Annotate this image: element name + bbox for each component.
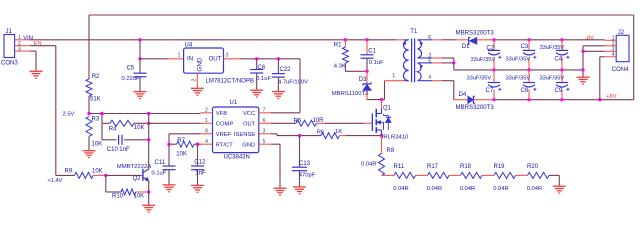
svg-text:7: 7	[263, 108, 266, 114]
svg-text:D3: D3	[359, 77, 367, 83]
svg-text:R4: R4	[109, 126, 117, 132]
svg-text:4: 4	[205, 139, 208, 145]
svg-text:VCC: VCC	[243, 111, 255, 117]
svg-text:C8: C8	[521, 88, 529, 94]
svg-text:10K: 10K	[134, 125, 145, 131]
svg-text:C11: C11	[155, 160, 166, 166]
svg-text:0.04R: 0.04R	[460, 186, 475, 192]
svg-text:MBRS3200T3: MBRS3200T3	[456, 29, 495, 36]
svg-text:R20: R20	[527, 164, 539, 170]
svg-text:1nF: 1nF	[119, 147, 130, 153]
svg-text:VIN: VIN	[23, 35, 33, 41]
svg-text:C7: C7	[486, 88, 494, 94]
svg-text:R18: R18	[460, 164, 472, 170]
svg-text:MBRS3200T3: MBRS3200T3	[456, 104, 495, 111]
svg-text:Q2: Q2	[133, 176, 142, 182]
svg-text:2: 2	[191, 79, 197, 82]
svg-text:5: 5	[263, 139, 266, 145]
svg-text:MBRS1100T3: MBRS1100T3	[332, 91, 369, 97]
svg-text:R8: R8	[387, 148, 395, 154]
svg-text:3: 3	[263, 129, 266, 135]
svg-text:4: 4	[612, 52, 615, 58]
svg-text:C10: C10	[107, 147, 119, 153]
svg-text:IN: IN	[187, 56, 193, 63]
svg-text:GND: GND	[197, 57, 204, 71]
svg-text:4: 4	[428, 74, 431, 80]
svg-text:C22: C22	[280, 67, 292, 73]
svg-text:D1: D1	[462, 44, 470, 50]
svg-text:0.1uF: 0.1uF	[369, 60, 384, 66]
svg-text:R19: R19	[494, 164, 506, 170]
svg-text:51K: 51K	[90, 96, 101, 102]
svg-text:0.1uF: 0.1uF	[256, 76, 271, 82]
svg-text:CON4: CON4	[612, 67, 629, 73]
svg-text:6: 6	[263, 118, 266, 124]
svg-text:LM7812CT/NOPB: LM7812CT/NOPB	[206, 79, 254, 85]
svg-text:CON3: CON3	[1, 61, 18, 67]
svg-text:470pF: 470pF	[299, 173, 316, 179]
svg-text:C3: C3	[521, 44, 529, 50]
svg-text:1K: 1K	[335, 129, 342, 135]
svg-text:0.04R: 0.04R	[493, 186, 508, 192]
svg-text:RT/CT: RT/CT	[216, 142, 233, 148]
svg-text:U4: U4	[185, 43, 193, 49]
svg-text:0.04R: 0.04R	[361, 162, 376, 168]
svg-text:+8V: +8V	[606, 94, 617, 100]
svg-text:C13: C13	[299, 161, 311, 167]
svg-text:1nF: 1nF	[195, 170, 206, 176]
svg-text:>1.4V: >1.4V	[48, 178, 63, 184]
svg-text:-8V: -8V	[585, 35, 594, 41]
svg-text:IRLR3410: IRLR3410	[382, 135, 409, 141]
svg-text:R11: R11	[394, 164, 405, 170]
svg-text:3: 3	[18, 46, 21, 52]
svg-text:2.5V: 2.5V	[63, 111, 75, 117]
svg-text:C1: C1	[368, 48, 376, 54]
svg-text:R9: R9	[65, 168, 73, 174]
svg-text:33uF/35V: 33uF/35V	[540, 45, 565, 51]
svg-text:MMBT2222A: MMBT2222A	[117, 164, 151, 170]
svg-text:VREF: VREF	[216, 132, 232, 138]
svg-text:VFB: VFB	[216, 111, 227, 117]
svg-text:C4: C4	[555, 57, 563, 63]
svg-text:5: 5	[428, 58, 431, 64]
svg-text:33uF/35V: 33uF/35V	[471, 57, 496, 63]
svg-text:33uF/35V: 33uF/35V	[467, 76, 492, 82]
svg-text:C2: C2	[487, 46, 495, 52]
svg-text:33uF/35V: 33uF/35V	[506, 56, 531, 62]
svg-text:33uF/35V: 33uF/35V	[506, 76, 531, 82]
svg-text:OUT: OUT	[208, 56, 221, 63]
svg-text:U1: U1	[230, 100, 238, 106]
svg-text:R2: R2	[92, 74, 100, 80]
svg-text:1: 1	[178, 53, 181, 59]
svg-text:J2: J2	[618, 30, 625, 36]
svg-text:OUT: OUT	[243, 122, 256, 128]
svg-text:0.1uF: 0.1uF	[152, 170, 167, 176]
svg-text:0.04R: 0.04R	[427, 186, 442, 192]
svg-text:C5: C5	[127, 65, 135, 71]
svg-text:ISENSE: ISENSE	[234, 132, 255, 138]
svg-text:R17: R17	[427, 164, 439, 170]
svg-text:0.04R: 0.04R	[527, 186, 542, 192]
svg-text:10K: 10K	[92, 141, 103, 147]
svg-text:3: 3	[226, 53, 229, 59]
svg-text:R1: R1	[334, 42, 342, 48]
svg-text:6: 6	[428, 35, 431, 41]
svg-text:C9: C9	[555, 88, 563, 94]
svg-text:D4: D4	[459, 92, 467, 98]
svg-text:33uF/35V: 33uF/35V	[540, 76, 565, 82]
svg-text:0.04R: 0.04R	[393, 186, 408, 192]
svg-text:10K: 10K	[92, 168, 103, 174]
svg-text:2: 2	[205, 108, 208, 114]
svg-text:R7: R7	[177, 138, 185, 144]
svg-text:1: 1	[392, 73, 395, 79]
svg-text:COMP: COMP	[216, 122, 234, 128]
svg-text:T1: T1	[410, 29, 418, 35]
svg-text:GND: GND	[242, 142, 255, 148]
svg-text:4.7uF/100V: 4.7uF/100V	[278, 80, 308, 86]
svg-text:J1: J1	[6, 29, 13, 35]
svg-text:0.22uF: 0.22uF	[122, 76, 141, 82]
svg-text:10K: 10K	[176, 152, 187, 158]
svg-text:8: 8	[205, 129, 208, 135]
svg-text:UC3843N: UC3843N	[224, 155, 250, 161]
svg-text:4.3K: 4.3K	[334, 63, 346, 69]
svg-text:R10: R10	[112, 194, 124, 200]
svg-text:1: 1	[205, 118, 208, 124]
svg-text:Q1: Q1	[383, 106, 392, 112]
svg-text:C12: C12	[194, 160, 206, 166]
